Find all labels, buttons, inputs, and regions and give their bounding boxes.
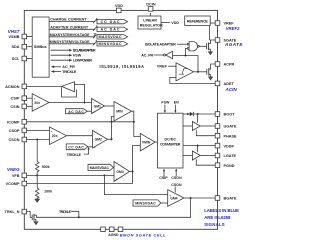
svg-text:MINSYSTEMVOLTAGE: MINSYSTEMVOLTAGE [50, 40, 91, 44]
wire reference to VREF pin [210, 22, 215, 24]
Q3 drain stub [34, 215, 36, 217]
wire ICOMP net [27, 121, 134, 123]
arrowhead FSW down [164, 110, 166, 113]
wire ISOLATE ADAPTER to gate G1 [177, 43, 187, 45]
wire AC_PR node [186, 56, 199, 72]
wire SGATE pin [210, 39, 216, 41]
wire converter to LGATE driver [183, 155, 192, 157]
svg-text:AGATE: AGATE [224, 42, 243, 47]
svg-text:MINSVDAC: MINSVDAC [135, 202, 156, 206]
svg-text:11: 11 [93, 33, 97, 37]
wire CA1 output to GM1 [49, 102, 92, 104]
svg-text:VMIN: VMIN [142, 141, 151, 145]
svg-text:LGATE: LGATE [224, 154, 237, 158]
svg-text:CSON: CSON [171, 176, 182, 180]
svg-text:VREF: VREF [157, 65, 168, 69]
svg-text:CSOP: CSOP [9, 129, 20, 133]
svg-text:ACMON: ACMON [5, 85, 20, 89]
DAC flag CC DAC (loop) [66, 144, 88, 150]
svg-text:UGATE: UGATE [224, 125, 237, 129]
pin CSIN [22, 104, 27, 109]
svg-text:VHST: VHST [8, 29, 20, 34]
ground symbol under Q1 [208, 52, 213, 55]
gm amp GM1 [92, 99, 105, 114]
junction VFB divider tap [36, 174, 38, 176]
wire VREF to comparator CMP1 [168, 65, 176, 67]
wire bus ChargeCurrent [49, 21, 95, 23]
chip outline border [24, 10, 217, 229]
svg-text:SDA: SDA [11, 45, 19, 49]
pin DCIN (top) [148, 7, 153, 12]
svg-text:CSIP: CSIP [11, 97, 20, 101]
gm amp GM4 [168, 190, 184, 207]
svg-text:PHASE: PHASE [224, 134, 238, 138]
arrowhead EN down [174, 110, 176, 113]
G2 output bubble [164, 54, 166, 56]
wire VFB branch to GM4 [104, 175, 167, 194]
pin CELL (bottom) [118, 227, 123, 232]
ground symbol under Q3 [34, 222, 39, 225]
svg-text:VDD: VDD [115, 4, 123, 8]
wire BOOT to UGATE driver supply [197, 114, 199, 123]
svg-text:REFERENCE: REFERENCE [187, 20, 209, 24]
wire CSON sense into converter [175, 171, 177, 177]
svg-text:DCIN: DCIN [146, 2, 156, 6]
svg-text:CC DAC: CC DAC [68, 145, 84, 149]
current sense amp CA1 20x [32, 94, 49, 112]
svg-text:MINSVDAC: MINSVDAC [99, 42, 122, 46]
logic gate G1 (NAND) body [189, 42, 197, 51]
svg-text:CSIN: CSIN [10, 105, 19, 109]
transistor Q2 channel bar [208, 68, 210, 76]
svg-text:REGULATOR: REGULATOR [140, 24, 163, 28]
transistor Q3 trickle FET gate bar [31, 215, 33, 221]
wire G1 lower input riser [186, 48, 188, 55]
wire FSW into converter [164, 105, 166, 111]
pin TRKL_N [22, 209, 27, 214]
wire regulator VDD output [161, 22, 170, 24]
svg-text:ADAPTER CURRENT: ADAPTER CURRENT [50, 25, 89, 29]
svg-text:ACPR: ACPR [224, 63, 235, 67]
DAC flag CC DAC [97, 19, 128, 23]
pin SDA [22, 44, 27, 49]
wire MAXSVDAC to GM3 [112, 166, 115, 168]
resistor R2 100k [35, 188, 39, 198]
wire R1 to VFB node [36, 172, 38, 188]
wire CSIP sense into converter [163, 171, 165, 177]
svg-text:SCL: SCL [12, 57, 20, 61]
svg-text:LABELS IN BLUE: LABELS IN BLUE [204, 208, 239, 213]
ground symbol under R2 [35, 199, 40, 203]
wire VDDP to LGATE driver supply [197, 146, 199, 153]
pin CSON [22, 137, 27, 142]
wire bus MaxSystemVoltage [49, 36, 95, 38]
pin PHASE [215, 133, 220, 138]
pin ACPR [215, 62, 220, 67]
wire VFB net [27, 174, 114, 176]
svg-text:ICOMP: ICOMP [7, 120, 20, 124]
transistor Q1 AGATE driver gate bar [205, 43, 207, 49]
pin ADET [215, 81, 220, 86]
SMBus input wire TRICKLE [54, 71, 61, 73]
svg-text:ISOLATE ADAPTER: ISOLATE ADAPTER [73, 49, 96, 53]
arrowhead CSIP up [163, 169, 165, 172]
pin AGND (bottom) [101, 227, 106, 232]
svg-text:CSIP: CSIP [159, 176, 168, 180]
wire AC DAC to GM1 [87, 110, 91, 112]
svg-text:20x: 20x [34, 101, 40, 105]
wire bus MinSystemVoltage [49, 43, 95, 45]
svg-text:AC_PR: AC_PR [62, 65, 75, 69]
current sense amp CA2 20x [50, 127, 67, 145]
svg-text:+: + [93, 110, 95, 114]
wire converter to UGATE driver [183, 125, 192, 127]
svg-text:VFB: VFB [12, 174, 20, 178]
wire CSIP to CA1 [27, 97, 32, 99]
svg-text:AC_PR: AC_PR [141, 54, 153, 58]
arrowhead TRICKLE up [88, 147, 90, 150]
pin ICOMP [22, 120, 27, 125]
svg-text:100k: 100k [44, 189, 52, 193]
SMBus output wire LOW POWER [51, 59, 69, 61]
DAC flag MAXSVDAC (loop) [88, 164, 113, 170]
svg-text:VDDP: VDDP [224, 144, 235, 148]
DAC flag AC DAC (loop) [66, 109, 88, 114]
svg-text:ADET: ADET [224, 82, 235, 86]
transistor Q3 channel bar [33, 214, 35, 221]
arrowheads SMBus outputs [69, 49, 72, 52]
CMP1 hysteresis glyph [179, 69, 187, 75]
junction VFB to GM4 branch [103, 174, 105, 176]
wire G2 to AC_PR label [154, 54, 164, 56]
wire CSIN to CA1 [27, 105, 32, 107]
pin CSOP [22, 128, 27, 133]
svg-text:SMBus: SMBus [34, 45, 47, 49]
svg-text:MAXSVDAC: MAXSVDAC [99, 35, 122, 39]
svg-text:-: - [51, 139, 52, 143]
svg-text:ISOLATE ADAPTER: ISOLATE ADAPTER [145, 42, 176, 46]
SMBus output wire FSW [51, 54, 69, 56]
svg-text:+: + [34, 97, 36, 101]
svg-text:VCOMP: VCOMP [6, 182, 20, 186]
pin CSIP [22, 96, 27, 101]
junction CSON divider tap [36, 138, 38, 140]
Q2 drain stub to ACPR pin [209, 64, 215, 69]
wire CA2 output to GM2 [67, 135, 93, 137]
wire PHASE return [196, 130, 215, 136]
G1 input bubbles [187, 43, 189, 45]
wire VSMB to SMBus [27, 36, 32, 38]
wire DRV1 to UGATE pin [200, 125, 215, 127]
A1 feedback loop wire [62, 87, 77, 97]
svg-text:ISL9519, ISL9519A: ISL9519, ISL9519A [100, 64, 145, 69]
svg-text:AGND: AGND [108, 233, 119, 237]
DAC flag MINSVDAC [97, 42, 128, 46]
pin SGATE [215, 38, 220, 43]
wire CC DAC to GM2 [88, 146, 93, 148]
pin VDD (top) [117, 8, 122, 13]
wire R2 to ground [36, 197, 38, 199]
svg-text:TRKL_N: TRKL_N [5, 210, 20, 214]
wire MIN output to VMIN [132, 111, 141, 136]
wire VMIN output to converter [155, 141, 157, 143]
wire reference to SGATE switch [209, 26, 211, 40]
wire VCOMP net [27, 183, 133, 185]
pin PGND [215, 163, 220, 168]
svg-text:20x: 20x [52, 134, 58, 138]
min selector MIN [114, 102, 132, 122]
svg-text:ACIN: ACIN [225, 87, 238, 92]
junction boot diode anode [187, 113, 189, 115]
Q1 source stub [208, 49, 210, 51]
wire PGND return [196, 159, 215, 165]
wire GM4 output to BGATE [184, 197, 215, 199]
DAC flag MAXSVDAC [97, 35, 128, 39]
wire CSON label into GM4 [174, 187, 176, 193]
wire G2 input [173, 55, 186, 57]
junction CA1 output to A1 [83, 101, 85, 103]
SMBus output wire ISOLATE ADAPTER [51, 49, 69, 51]
DAC flag MINSVDAC (loop) [133, 200, 161, 206]
svg-text:VSMB: VSMB [9, 35, 20, 39]
gm amp GM3 [114, 162, 130, 182]
svg-text:MAXSYSTEMVOLTAGE: MAXSYSTEMVOLTAGE [50, 33, 91, 37]
svg-text:BGATE: BGATE [224, 197, 237, 201]
svg-text:CONVERTER: CONVERTER [160, 142, 181, 146]
junction ICOMP at MIN output [133, 121, 135, 123]
svg-text:VREF2: VREF2 [226, 26, 240, 31]
wire EN into converter [174, 105, 176, 111]
svg-text:+: + [94, 145, 96, 149]
arrowheads SMBus inputs [51, 66, 54, 69]
wire TRICKLE label tap [71, 211, 79, 217]
Q1 drain stub [208, 40, 210, 44]
svg-text:MAXSVDAC: MAXSVDAC [90, 166, 110, 170]
junction ICOMP at GM2 riser [110, 121, 112, 123]
bus width slash marks [93, 20, 96, 23]
wire BGATE feedback drop [36, 198, 191, 217]
wire CMP1 output to Q2 [194, 71, 207, 73]
pin SCL [22, 56, 27, 61]
wire ACMON [27, 85, 62, 87]
svg-text:+: + [116, 177, 118, 181]
wire TRICKLE tap to CC DAC path [84, 149, 89, 154]
ground symbol under Q2 [208, 77, 213, 80]
svg-text:ARE ISL6258: ARE ISL6258 [204, 215, 231, 220]
junction CMP1 output riser [197, 71, 199, 73]
svg-text:VDD: VDD [171, 21, 179, 25]
wire MINSVDAC to GM4 [161, 202, 168, 204]
linear regulator block [138, 16, 161, 29]
wire CSOP to CA2 [27, 129, 50, 131]
svg-text:TRICKLE: TRICKLE [59, 210, 72, 214]
svg-text:7: 7 [95, 40, 97, 44]
wire SCL to SMBus [27, 58, 32, 60]
diode D1 bar [193, 112, 195, 116]
junction VDDP tap [197, 145, 199, 147]
svg-text:GM1: GM1 [94, 104, 101, 108]
svg-text:-: - [34, 107, 35, 111]
driver DRV2 LGATE [192, 151, 200, 160]
wire converter to VDDP [183, 145, 215, 147]
svg-text:-: - [116, 164, 117, 168]
svg-text:-: - [93, 100, 94, 104]
wire DCIN into regulator [150, 13, 152, 16]
wire TRKL_N to Q3 gate [27, 212, 32, 218]
svg-text:PGND: PGND [224, 164, 235, 168]
pin VCOMP [22, 181, 27, 186]
svg-text:BOOT: BOOT [224, 113, 236, 117]
junction GM2 to MIN riser [110, 138, 112, 140]
svg-text:EN: EN [174, 101, 179, 105]
svg-text:GM3: GM3 [116, 170, 123, 174]
Q2 source stub [209, 75, 211, 77]
svg-text:+: + [169, 194, 171, 198]
svg-text:AC DAC: AC DAC [101, 28, 120, 32]
pin BMON (bottom) [109, 227, 114, 232]
gm amp GM2 [93, 131, 108, 149]
pin VREF [215, 21, 220, 26]
G1 output bubble [198, 45, 200, 47]
svg-text:BMON SGATE CELL: BMON SGATE CELL [120, 232, 166, 237]
divider tap vertical from CSON node [36, 140, 38, 162]
wire SDA to SMBus [27, 46, 32, 48]
transistor Q1 channel bar [207, 43, 209, 51]
svg-text:CC DAC: CC DAC [101, 20, 120, 24]
resistor R1 500k [35, 162, 39, 173]
arrowhead CSON up [175, 169, 177, 172]
pin ACMON [22, 84, 27, 89]
pin VFB [22, 173, 27, 178]
ACMON buffer A1 (points left) [62, 82, 75, 92]
svg-text:500k: 500k [42, 165, 50, 169]
pin VDDP [215, 143, 220, 148]
svg-text:+: + [51, 129, 53, 133]
svg-text:DC/DC: DC/DC [164, 137, 176, 141]
svg-text:GM2: GM2 [95, 138, 102, 142]
driver DRV1 UGATE [192, 122, 200, 131]
pin LGATE [215, 153, 220, 158]
svg-text:LINEAR: LINEAR [143, 19, 157, 23]
reference block [185, 16, 211, 26]
pin VSMB [22, 34, 27, 39]
A1 input wire from CA1 output node [75, 84, 85, 102]
svg-text:FSW: FSW [73, 54, 82, 58]
wire bus AdapterCurrent [49, 28, 95, 30]
transistor Q2 ACPR pulldown gate bar [206, 69, 208, 75]
svg-text:SIGNALS: SIGNALS [204, 222, 225, 227]
Q3 source stub to ground [34, 220, 36, 222]
svg-text:MIN: MIN [116, 109, 123, 113]
junction GM3 output at VCOMP [132, 170, 134, 172]
SMBus block U-SMB [32, 17, 49, 77]
wire GM2 output vertical to MIN [112, 117, 115, 140]
svg-text:CHARGE CURRENT: CHARGE CURRENT [50, 18, 87, 22]
pin BGATE [215, 196, 220, 201]
svg-text:TRICKLE: TRICKLE [67, 153, 82, 157]
junction TRICKLE tap on bottom net [78, 216, 80, 218]
svg-text:-: - [94, 132, 95, 136]
svg-text:-: - [169, 203, 170, 207]
comparator CMP1 (AC detect) [176, 63, 194, 81]
pin UGATE [215, 124, 220, 129]
DAC flag AC DAC [97, 27, 128, 31]
wire DRV2 to LGATE pin [200, 155, 215, 157]
wire G1 output to Q1 gate [199, 45, 206, 47]
junction BGATE feedback [190, 197, 192, 199]
svg-text:AC DAC: AC DAC [68, 110, 84, 114]
svg-text:6: 6 [96, 17, 98, 21]
wire GM2 output [108, 138, 112, 140]
svg-text:GM4: GM4 [170, 196, 177, 200]
svg-text:TRICKLE: TRICKLE [62, 70, 77, 74]
svg-text:VNEG: VNEG [7, 167, 20, 172]
SMBus input wire AC_PR [54, 66, 61, 68]
DC/DC converter block [158, 113, 184, 168]
wire GM3 output riser to VMIN [130, 146, 141, 184]
wire CSON to CA2 [27, 139, 50, 141]
min selector VMIN [140, 133, 155, 151]
wire GM1 output to MIN [105, 105, 115, 107]
diode D1 (boot) [190, 112, 194, 116]
wire ADET to CMP1 input [170, 77, 215, 83]
svg-text:CSON: CSON [171, 183, 182, 187]
wire converter to BOOT [183, 113, 215, 115]
svg-text:FSW: FSW [161, 101, 170, 105]
svg-text:5: 5 [96, 25, 98, 29]
inverter G2 (points left) [166, 51, 173, 58]
junction AC_PR node [184, 54, 186, 56]
junction boot diode cathode [197, 113, 199, 115]
svg-text:LOW POWER: LOW POWER [73, 59, 92, 63]
svg-text:CSON: CSON [9, 138, 20, 142]
pin BOOT [215, 112, 220, 117]
